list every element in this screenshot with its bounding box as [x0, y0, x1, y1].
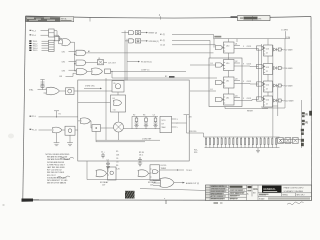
feed vertical left column	[213, 39, 215, 48]
clock drops right column	[267, 39, 269, 96]
ladder ground stub	[256, 148, 260, 153]
or-gate U1B	[62, 39, 71, 46]
svg-text:P2-8 GATE: P2-8 GATE	[284, 67, 294, 70]
ladder resistor r14	[256, 137, 257, 148]
svg-text:C1 (2): C1 (2)	[160, 45, 165, 47]
title block left names column	[206, 185, 229, 201]
svg-text:P2-9 GATE: P2-9 GATE	[284, 85, 294, 88]
GA output stub	[107, 172, 108, 174]
filter branch 3	[153, 116, 157, 128]
edge connector blob 1	[302, 112, 308, 117]
svg-text:B1 (2): B1 (2)	[160, 40, 165, 42]
mid gate pair 1 box	[135, 31, 140, 35]
ladder resistor r01	[206, 137, 207, 148]
ladder resistor r08	[233, 137, 234, 148]
svg-text:CR3: CR3	[62, 70, 66, 72]
ground G1	[54, 132, 60, 145]
cap bank C2	[106, 160, 110, 169]
top-right drawing number dash	[231, 16, 238, 18]
osc gate lower input wire	[43, 90, 47, 93]
counter bottom rail	[225, 107, 268, 113]
wire U2C to U2D	[87, 71, 92, 73]
bottom jog wires	[262, 106, 285, 108]
wire to ladder head	[187, 133, 204, 137]
ff L2 chain wire	[234, 65, 259, 68]
cap bank C1	[101, 151, 105, 158]
svg-text:R5: R5	[116, 151, 118, 153]
svg-text:CD13: CD13	[247, 98, 252, 100]
notes signature squiggle	[60, 157, 74, 159]
clock rail label smudge	[214, 36, 221, 38]
svg-text:CR1: CR1	[62, 52, 66, 54]
svg-text:D1: D1	[211, 63, 213, 65]
contact box K1	[278, 138, 284, 144]
svg-text:2.2K: 2.2K	[116, 168, 120, 170]
svg-text:7: 7	[177, 123, 178, 125]
svg-text:C2: C2	[107, 160, 109, 162]
ladder resistor r13	[252, 137, 253, 148]
svg-text:U10: U10	[226, 63, 229, 65]
wire U4 into module	[74, 90, 112, 92]
ff R3 output row	[273, 84, 294, 88]
bus vertical 1	[124, 31, 126, 81]
wire to title block	[140, 189, 206, 191]
gate U2A feed stub	[75, 53, 77, 55]
feedback vertical	[272, 45, 274, 137]
ladder resistor r05	[221, 137, 222, 148]
GC input stubs	[153, 180, 161, 186]
pullup label row	[30, 116, 78, 119]
svg-text:U9: U9	[162, 123, 164, 125]
gate U15 oval	[53, 127, 62, 133]
wire B5 to mixer	[101, 127, 114, 129]
ff gate L4	[216, 97, 224, 101]
ladder resistor r07	[229, 137, 230, 148]
inner wire horizontal	[78, 102, 110, 104]
svg-text:DIODES ARE IN4148: DIODES ARE IN4148	[47, 161, 64, 164]
ladder resistor r10	[241, 137, 242, 148]
mid gate pair 2 box	[135, 39, 140, 43]
clock drop L2	[228, 53, 230, 60]
ff L3 out stub	[234, 79, 240, 81]
mixer output wire	[124, 128, 161, 130]
notes text block	[46, 154, 71, 184]
bottom-left corner blob	[22, 199, 34, 202]
clock drop L3	[228, 71, 230, 78]
transistor Q1	[98, 60, 104, 65]
svg-text:A1 (2): A1 (2)	[160, 33, 165, 36]
title block bottom scale strip	[258, 196, 310, 200]
ff L1 chain wire	[234, 48, 259, 50]
gate U2C input wire	[69, 69, 77, 71]
svg-text:U6: U6	[113, 98, 115, 100]
svg-text:U14: U14	[266, 99, 269, 101]
bottom border fold tick	[164, 198, 166, 204]
svg-text:TIMER: TIMER	[161, 168, 167, 170]
ladder resistor r17	[268, 137, 269, 148]
ff R2 output row	[273, 66, 294, 70]
counter input wire y65	[190, 63, 216, 65]
svg-text:TB1-5: TB1-5	[33, 50, 38, 52]
svg-text:12V: 12V	[102, 184, 106, 186]
vertical feed wire	[74, 42, 76, 71]
border tick blob right	[309, 111, 312, 116]
svg-text:REV A: REV A	[283, 194, 289, 197]
svg-text:XTAL: XTAL	[29, 89, 33, 92]
U2A output long wire	[86, 52, 214, 54]
input label row 2	[30, 34, 49, 37]
mixer bottom wire	[118, 132, 120, 140]
wire U3 to buffer	[59, 90, 65, 92]
counter input stub label 3	[160, 45, 216, 47]
ff L4 out stub	[234, 96, 240, 98]
net C end blob	[169, 76, 175, 78]
power tee	[184, 115, 193, 133]
ladder resistor r18	[272, 137, 273, 148]
junction dot net B	[111, 71, 112, 72]
svg-text:TP 601: TP 601	[186, 170, 192, 172]
mid pair 2 output arrow	[141, 40, 146, 42]
ladder resistor r09	[237, 137, 238, 148]
ff gate R1	[257, 46, 265, 50]
contact box K3	[292, 138, 298, 144]
svg-text:12: 12	[266, 103, 268, 105]
chain vertical 2	[261, 44, 263, 100]
inter-column pin labels row4	[243, 98, 251, 100]
svg-text:R9 1K: R9 1K	[139, 152, 145, 154]
svg-text:SCALE: SCALE	[259, 197, 265, 200]
svg-text:P1-4: P1-4	[32, 30, 36, 32]
svg-text:U11: U11	[226, 97, 229, 99]
sheet border frame right	[310, 17, 313, 201]
svg-text:U9 555: U9 555	[161, 165, 167, 167]
svg-text:12: 12	[266, 52, 268, 54]
svg-text:Q3: Q3	[235, 79, 237, 81]
svg-text:10K: 10K	[116, 154, 120, 156]
svg-text:Q1: Q1	[98, 58, 100, 60]
ff box L3	[224, 77, 235, 88]
or-gate GC	[160, 178, 174, 188]
gate U2D or-gate	[92, 68, 103, 75]
amp gate GB	[138, 170, 148, 177]
sheet border frame left	[23, 16, 26, 200]
counter input stub label 1	[160, 33, 214, 36]
long wire net B to counter	[111, 70, 187, 72]
wire U8 to B5	[91, 121, 93, 128]
inter-column pin labels row2	[243, 64, 251, 66]
inner vertical x106	[105, 78, 107, 140]
svg-text:COMP 1.5: COMP 1.5	[141, 70, 149, 72]
handwritten squiggle below title block	[287, 202, 304, 205]
ff gate R4	[257, 97, 265, 101]
ff box L4	[224, 94, 235, 105]
svg-text:ALARM OUT (2): ALARM OUT (2)	[186, 182, 200, 185]
crystal Y1	[40, 80, 44, 90]
svg-text:R6: R6	[116, 165, 118, 167]
junction dot	[74, 54, 75, 55]
bus stub label row	[127, 61, 138, 63]
svg-text:1.5M: 1.5M	[286, 37, 290, 39]
svg-text:106D286: 106D286	[254, 18, 261, 20]
ladder resistor r15	[260, 137, 261, 148]
svg-text:P1-6: P1-6	[32, 35, 36, 37]
U2B output wire	[86, 61, 98, 63]
svg-text:RESET: RESET	[247, 110, 254, 112]
svg-text:P3: P3	[306, 123, 308, 125]
svg-text:12: 12	[266, 71, 268, 73]
ff R4 output row	[273, 99, 295, 103]
wire U1A to U1B	[61, 39, 62, 41]
connector stack lower box	[49, 40, 55, 51]
box BB	[150, 165, 160, 181]
marks below title block	[214, 202, 219, 203]
ff box R4	[264, 96, 273, 107]
filter rail drop	[131, 116, 133, 128]
ff L1 out stub	[234, 44, 240, 46]
hatched stamp box	[125, 191, 135, 199]
input label row 1	[30, 30, 49, 33]
inter-column pin labels row3	[243, 81, 251, 83]
sheet border frame top	[26, 16, 312, 18]
svg-text:1: 1	[159, 14, 161, 16]
feed vertical 2	[209, 40, 211, 58]
input label row lower	[30, 129, 53, 132]
svg-text:GENERAL: GENERAL	[263, 187, 276, 191]
svg-text:SH 1 OF 2: SH 1 OF 2	[297, 195, 305, 197]
resistor ladder top rail	[204, 136, 280, 138]
edge connector blob 2	[302, 120, 308, 125]
amp gate GA	[96, 170, 106, 177]
pullup tee R1	[54, 111, 61, 118]
buffer box U2E	[105, 69, 111, 73]
svg-text:Q4: Q4	[235, 96, 237, 98]
ladder resistor r04	[217, 137, 218, 148]
svg-text:VCO: VCO	[162, 120, 166, 122]
svg-text:STROBE (2): STROBE (2)	[149, 41, 159, 43]
svg-text:U14: U14	[266, 84, 269, 86]
gate U2C feed stub	[75, 70, 77, 72]
svg-text:U11: U11	[226, 80, 229, 82]
mid labels under VCO	[161, 165, 167, 170]
svg-text:CD13: CD13	[247, 64, 252, 66]
ff L4 chain wire	[234, 100, 259, 101]
input label row 4	[29, 43, 48, 46]
cluster bottom rail	[87, 179, 160, 181]
ground G2	[67, 135, 73, 146]
ladder out wire pair	[280, 140, 301, 143]
bus vertical 2	[126, 39, 128, 81]
svg-text:P1-11: P1-11	[32, 129, 37, 131]
mid gate pair 2 gate	[129, 39, 134, 43]
xtal input wire	[38, 89, 43, 91]
right box pin texts	[266, 52, 268, 105]
rail drop x237	[236, 39, 238, 42]
gate U2C or-gate	[76, 68, 87, 74]
svg-text:SCHEMATIC DIAGRAM: SCHEMATIC DIAGRAM	[284, 190, 304, 193]
ff box R3	[264, 81, 273, 92]
ff box R2	[264, 64, 273, 75]
svg-text:RX 60 HZ (2): RX 60 HZ (2)	[141, 62, 152, 64]
svg-text:LAST REF DES USED: LAST REF DES USED	[47, 166, 66, 169]
counter enclosure box	[209, 58, 242, 107]
vertical jog net C	[112, 71, 217, 78]
svg-text:R2: R2	[133, 114, 135, 116]
svg-text:R20 330: R20 330	[190, 131, 197, 133]
svg-text:R1: R1	[59, 113, 61, 115]
filter branch 2	[144, 116, 148, 128]
svg-text:9: 9	[243, 64, 244, 66]
input label row 3	[29, 40, 48, 43]
buffer box B7	[65, 126, 75, 135]
cap bank C3	[138, 157, 142, 166]
wire stack to U1A	[54, 31, 57, 37]
gate U2C lower input wire	[66, 73, 77, 76]
svg-text:PHASE CONTROL MPU: PHASE CONTROL MPU	[284, 187, 305, 190]
svg-text:Q1: Q1	[235, 44, 237, 46]
svg-text:P2-10 GATE: P2-10 GATE	[284, 100, 295, 103]
svg-text:U13: U13	[266, 48, 269, 50]
BA labels	[100, 181, 109, 186]
clock drop L4	[228, 88, 230, 94]
clock rail	[214, 34, 291, 38]
ladder resistor r03	[213, 137, 214, 148]
ff box L2	[224, 60, 235, 71]
svg-text:.01: .01	[116, 161, 119, 163]
ladder resistor r19	[276, 137, 277, 148]
mid gate pair 1 gate	[129, 31, 134, 35]
svg-text:5MH: 5MH	[162, 127, 166, 129]
title block small cells left of logo	[247, 185, 258, 196]
wire B4 down to phase det	[118, 112, 120, 122]
gate U8 input stub	[78, 120, 81, 122]
svg-text:C6: C6	[116, 158, 118, 160]
ladder resistor r16	[264, 137, 265, 148]
wire stack to U1B	[54, 35, 62, 44]
svg-text:3: 3	[177, 119, 178, 121]
notes lower squiggle	[57, 176, 70, 178]
svg-text:2: 2	[164, 198, 166, 200]
svg-text:B2: B2	[165, 76, 167, 78]
title block left column text smudges	[206, 186, 269, 200]
svg-text:C8 .1: C8 .1	[139, 155, 143, 157]
buffer B5	[92, 125, 101, 132]
title block outline	[206, 185, 312, 201]
svg-text:R39: R39	[194, 152, 197, 154]
ladder resistor r06	[225, 137, 226, 148]
input label row 6	[29, 47, 48, 50]
clock drop L1	[228, 39, 230, 42]
svg-text:5 MHZ OSC: 5 MHZ OSC	[85, 86, 95, 88]
wire B7 to module	[75, 129, 78, 131]
GB labels top	[139, 152, 145, 157]
gate U1A inverter	[55, 37, 60, 41]
mid pair 2 input stub	[125, 40, 129, 42]
divider block B4	[111, 95, 126, 112]
double line lower	[96, 141, 145, 143]
revision table block top-left	[26, 17, 74, 22]
svg-text:EN: EN	[60, 76, 63, 78]
gate U2B input wire	[69, 60, 77, 62]
top-right drawing number box	[238, 16, 271, 21]
ff gate L2	[216, 63, 224, 67]
ff L3 chain wire	[234, 83, 259, 86]
counter input wire y91	[190, 89, 216, 91]
gate U2A	[76, 50, 86, 55]
svg-text:5: 5	[243, 81, 244, 83]
sheet border frame bottom	[23, 199, 312, 201]
svg-text:9: 9	[243, 98, 244, 100]
vertical x285	[284, 39, 286, 108]
ff box R1	[264, 45, 273, 56]
svg-text:P1-9: P1-9	[32, 116, 36, 118]
module bottom vertical	[86, 161, 88, 180]
svg-text:CD13: CD13	[247, 81, 252, 83]
ff L2 out stub	[234, 61, 240, 63]
ladder resistor r12	[248, 137, 249, 148]
ff gate L1	[216, 45, 224, 49]
buffer box U4	[66, 88, 75, 95]
component value labels column	[116, 151, 120, 170]
input label row 5	[29, 45, 48, 48]
svg-text:CD13: CD13	[247, 46, 252, 48]
svg-text:P2-7 GATE: P2-7 GATE	[284, 49, 294, 52]
inter-column pin labels row1	[243, 46, 251, 48]
svg-text:U10: U10	[226, 45, 229, 47]
title block divider rows right	[258, 192, 312, 194]
svg-text:RESET (2): RESET (2)	[149, 33, 158, 35]
gate U2B	[76, 60, 86, 65]
box BA	[108, 167, 117, 180]
svg-text:U13: U13	[266, 67, 269, 69]
edge connector blob 3	[301, 129, 304, 135]
mid pair 1 output arrow	[141, 32, 146, 34]
resistor ladder bottom rail	[205, 147, 280, 149]
ff gate L3	[216, 80, 224, 84]
Q1 output stub and label	[104, 61, 108, 63]
svg-text:U5: U5	[113, 83, 115, 85]
svg-text:12: 12	[266, 88, 268, 90]
svg-text:C4: C4	[153, 114, 155, 116]
GB output stub	[149, 172, 151, 174]
filter rail	[132, 115, 158, 117]
VCO box U9	[160, 116, 172, 132]
svg-text:A1: A1	[88, 50, 90, 53]
svg-text:÷10: ÷10	[113, 108, 116, 111]
osc gate U3	[46, 87, 59, 95]
inner vertical x96	[95, 131, 97, 141]
svg-text:E1: E1	[211, 89, 213, 91]
svg-text:1 KHZ REF: 1 KHZ REF	[142, 138, 152, 140]
ff gate R2	[257, 64, 265, 68]
mid pair 1 input wire	[122, 32, 129, 34]
edge connector bar line	[301, 100, 303, 148]
BB output wire	[160, 169, 192, 172]
VCO pin stubs	[172, 119, 178, 129]
contact box K2	[285, 138, 291, 144]
ff R1 output row	[273, 48, 294, 52]
edge connector blob 4	[301, 139, 304, 146]
vertical x278	[277, 85, 279, 116]
svg-text:CR2: CR2	[62, 61, 66, 63]
ladder resistor r02	[209, 137, 210, 148]
module inner arrow	[84, 87, 100, 89]
divider block B3	[112, 81, 124, 92]
revision table tick	[89, 18, 91, 22]
GC output arrow	[174, 182, 200, 185]
svg-text:P2: P2	[306, 115, 308, 117]
svg-text:5: 5	[243, 46, 244, 48]
ff gate R3	[257, 82, 265, 86]
